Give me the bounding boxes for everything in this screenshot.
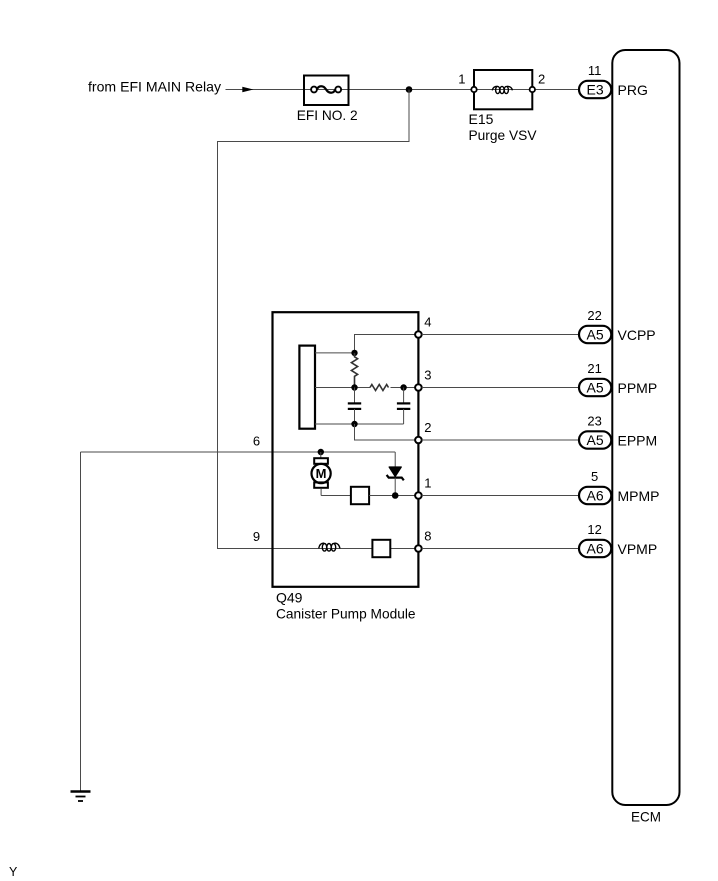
- node: dot left of R2: [351, 384, 357, 390]
- svg-text:A5: A5: [587, 380, 604, 396]
- svg-text:A5: A5: [587, 432, 604, 448]
- node: dot on pin 1 net: [392, 492, 399, 499]
- connector A5 (VCPP): [579, 326, 611, 343]
- svg-text:6: 6: [253, 433, 260, 448]
- wire: PPMP row to ECM: [422, 387, 579, 389]
- svg-text:VCPP: VCPP: [618, 327, 656, 343]
- node: dot right of R2: [400, 384, 406, 390]
- svg-text:A6: A6: [587, 488, 604, 504]
- pin 1 terminal of E15: [471, 87, 476, 92]
- svg-text:5: 5: [591, 469, 598, 484]
- wire: VPMP row to ECM: [422, 548, 579, 550]
- pin 3 terminal of Q49: [415, 384, 422, 391]
- svg-text:21: 21: [587, 361, 601, 376]
- svg-text:PRG: PRG: [618, 82, 648, 98]
- wire: pin 2 net inside Q49: [355, 424, 416, 440]
- driver block on pin 1 net: [351, 487, 369, 504]
- pin 4 terminal of Q49: [415, 331, 422, 338]
- svg-text:2: 2: [424, 420, 431, 435]
- capacitor C2: [397, 388, 410, 425]
- pin 8 terminal of Q49: [415, 545, 422, 552]
- filter block on VPMP net: [372, 540, 390, 557]
- svg-text:2: 2: [538, 72, 545, 87]
- purge VSV E15 box: [474, 70, 532, 109]
- svg-text:VPMP: VPMP: [618, 541, 658, 557]
- svg-text:Y: Y: [9, 865, 18, 879]
- svg-text:Q49: Q49: [276, 590, 303, 606]
- pin 2 terminal of E15: [530, 87, 535, 92]
- svg-text:E3: E3: [587, 82, 604, 98]
- svg-text:3: 3: [424, 368, 431, 383]
- node: dot at resistor top: [351, 350, 357, 356]
- wire: VCPP row to ECM: [422, 334, 579, 336]
- svg-text:9: 9: [253, 529, 260, 544]
- wire: ground riser: [80, 452, 82, 791]
- svg-text:EFI NO. 2: EFI NO. 2: [297, 107, 358, 123]
- svg-text:23: 23: [587, 413, 601, 428]
- inductor L1 on VPMP net: [319, 543, 340, 551]
- node: dot on bottom wire: [351, 421, 357, 427]
- svg-text:E15: E15: [469, 111, 494, 127]
- ground symbol: [71, 792, 91, 802]
- wire: pin 3 net inside Q49: [315, 387, 370, 389]
- svg-text:1: 1: [424, 476, 431, 491]
- motor M1 pump motor: [312, 452, 331, 496]
- wire: EPPM row to ECM: [422, 439, 579, 441]
- svg-text:from EFI MAIN Relay: from EFI MAIN Relay: [88, 79, 221, 95]
- svg-text:Canister Pump Module: Canister Pump Module: [276, 605, 416, 621]
- resistor R1 vertical: [351, 353, 357, 388]
- resistor R2 horizontal: [370, 385, 389, 391]
- wire: pin 4 net inside Q49: [315, 352, 355, 354]
- wire: top feed row from relay to ECM E3: [226, 89, 580, 91]
- ECM body: [612, 50, 679, 805]
- svg-text:MPMP: MPMP: [618, 488, 660, 504]
- svg-text:A5: A5: [587, 327, 604, 343]
- pin 1 terminal of Q49: [415, 492, 422, 499]
- capacitor C1: [348, 388, 361, 425]
- svg-text:1: 1: [458, 72, 465, 87]
- connector A6 (MPMP): [579, 487, 611, 504]
- svg-text:Purge VSV: Purge VSV: [469, 127, 538, 143]
- svg-text:ECM: ECM: [631, 809, 661, 825]
- connector E3 (PRG): [579, 81, 611, 98]
- connector A5 (PPMP): [579, 379, 611, 396]
- wire: from fuse junction down and left to VPMP feed: [218, 90, 416, 549]
- Q49 canister pump module box: [273, 312, 419, 587]
- node: junction dot at fuse output: [406, 86, 413, 93]
- svg-text:4: 4: [424, 315, 431, 330]
- svg-text:8: 8: [424, 529, 431, 544]
- wire: motor to driver block: [321, 495, 351, 497]
- svg-text:A6: A6: [587, 541, 604, 557]
- fuse EFI NO. 2 box: [304, 76, 349, 106]
- wire: capacitor common bottom: [315, 423, 404, 425]
- arrowhead on relay feed: [242, 87, 253, 92]
- wire: ground branch to motor row: [81, 451, 396, 453]
- svg-text:PPMP: PPMP: [618, 380, 658, 396]
- inductor: VSV solenoid coil: [492, 86, 512, 93]
- wire: pin 1 net inside Q49: [369, 495, 415, 497]
- svg-text:12: 12: [587, 522, 601, 537]
- connector A5 (EPPM): [579, 431, 611, 448]
- zener diode D1: [387, 452, 404, 496]
- svg-text:22: 22: [587, 308, 601, 323]
- svg-text:M: M: [316, 466, 327, 481]
- svg-text:EPPM: EPPM: [618, 432, 658, 448]
- node: motor tap dot: [318, 449, 324, 455]
- pin 2 terminal of Q49: [415, 437, 422, 444]
- wire: MPMP row to ECM: [422, 495, 579, 497]
- svg-text:11: 11: [588, 63, 602, 78]
- sensor element bar inside Q49: [299, 346, 315, 429]
- connector A6 (VPMP): [579, 540, 611, 557]
